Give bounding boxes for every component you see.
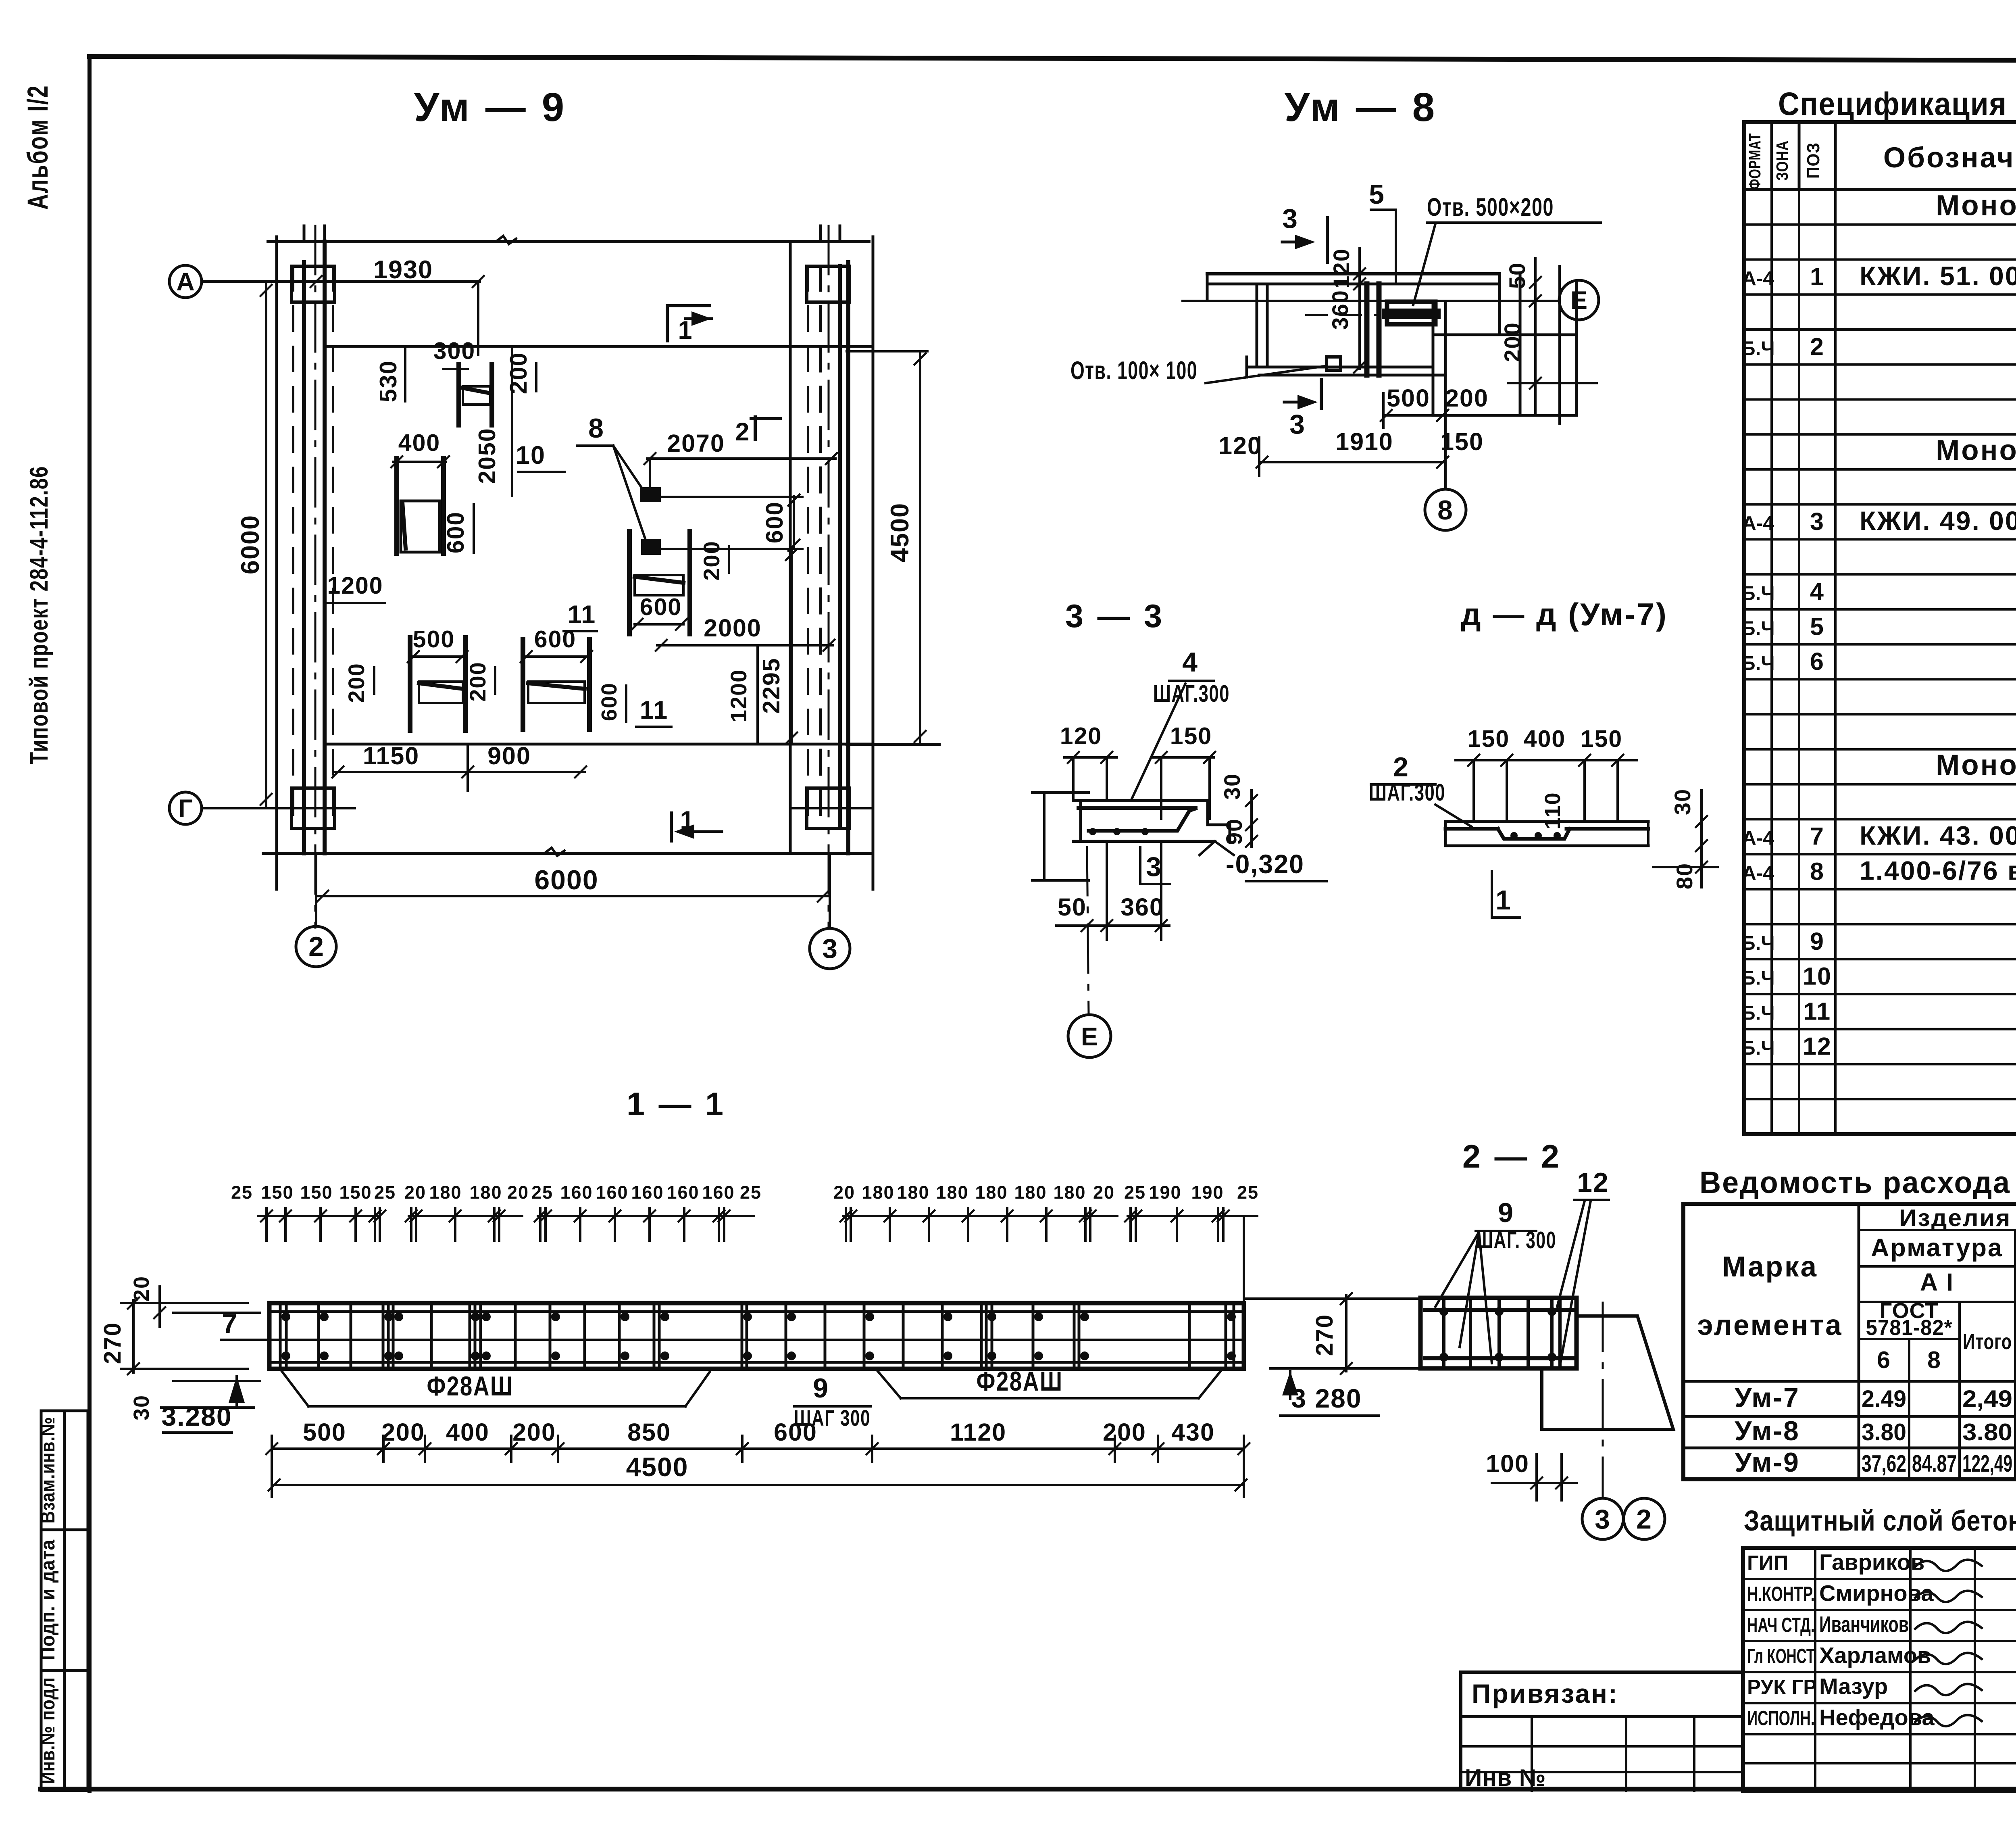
svg-text:3: 3 (1289, 409, 1306, 440)
svg-text:180: 180 (1053, 1182, 1086, 1203)
section mark 1 bottom (670, 813, 673, 841)
svg-text:5781-82*: 5781-82* (1866, 1316, 1953, 1340)
svg-text:3.80: 3.80 (1962, 1419, 2012, 1445)
svg-text:Ум — 9: Ум — 9 (414, 85, 566, 130)
opening D flank bars (521, 639, 525, 730)
svg-text:7: 7 (222, 1308, 238, 1339)
axis circle 3 (810, 928, 850, 969)
svg-text:200: 200 (505, 352, 532, 394)
svg-text:Гавриков: Гавриков (1819, 1550, 1924, 1575)
svg-text:150: 150 (1468, 726, 1510, 752)
svg-text:180: 180 (862, 1182, 894, 1203)
s11 rebar callout left F28AIII (282, 1371, 308, 1406)
svg-text:Монолитный участок Ум-9: Монолитный участок Ум-9 (1936, 749, 2016, 781)
svg-text:Мазур: Мазур (1819, 1674, 1888, 1699)
svg-text:3: 3 (822, 933, 837, 964)
svg-text:Е: Е (1570, 286, 1587, 315)
svg-text:Арматура: Арматура (1871, 1234, 2003, 1262)
um8 axis E circle (1559, 280, 1599, 320)
s33 axis E circle (1087, 847, 1089, 1015)
svg-text:КЖИ. 51. 00. 0: КЖИ. 51. 00. 0 (1860, 261, 2016, 291)
svg-text:Нефедова: Нефедова (1819, 1705, 1935, 1730)
svg-text:11: 11 (568, 601, 596, 629)
svg-text:3: 3 (1810, 508, 1824, 535)
svg-text:8: 8 (588, 413, 604, 444)
svg-text:Инв.№ подл: Инв.№ подл (37, 1677, 59, 1784)
svg-text:Б.Ч: Б.Ч (1741, 1037, 1774, 1059)
svg-text:Б.Ч: Б.Ч (1741, 932, 1774, 954)
dim 2050 (511, 346, 513, 496)
svg-text:3: 3 (1146, 851, 1162, 882)
left margin box: podp i data (41, 1530, 88, 1671)
svg-text:360: 360 (1327, 290, 1353, 330)
svg-text:150: 150 (1170, 723, 1212, 749)
dim 6000 left vertical (265, 282, 267, 808)
svg-text:Ф28АШ: Ф28АШ (427, 1371, 514, 1401)
svg-text:А-4: А-4 (1742, 268, 1774, 290)
spec table header row (1744, 188, 2016, 191)
svg-text:190: 190 (1149, 1182, 1181, 1203)
svg-text:9: 9 (813, 1373, 829, 1404)
svg-text:3 — 3: 3 — 3 (1065, 598, 1164, 634)
svg-text:400: 400 (398, 430, 440, 456)
svg-text:РУК ГР: РУК ГР (1747, 1676, 1817, 1699)
svg-text:4500: 4500 (626, 1452, 689, 1482)
svg-text:600: 600 (442, 511, 469, 553)
dim 2295 rot (790, 549, 793, 744)
svg-text:4: 4 (1182, 647, 1198, 678)
dim 600 right rot (793, 496, 795, 549)
svg-text:180: 180 (897, 1182, 929, 1203)
svg-text:ШАГ.300: ШАГ.300 (1369, 779, 1445, 806)
svg-text:А: А (176, 268, 195, 296)
svg-text:12: 12 (1803, 1032, 1832, 1060)
opening E rect (635, 575, 683, 595)
svg-text:Ум-7: Ум-7 (1735, 1383, 1800, 1413)
svg-text:530: 530 (375, 360, 402, 402)
svg-text:8: 8 (1927, 1347, 1941, 1373)
s33 left vertical dim (1043, 792, 1045, 880)
svg-text:элемента: элемента (1697, 1310, 1843, 1341)
svg-text:12: 12 (1577, 1167, 1609, 1198)
axis G circle (169, 792, 202, 824)
wall stubs above slab (303, 226, 306, 242)
svg-text:11: 11 (640, 696, 669, 724)
svg-text:600: 600 (761, 501, 788, 543)
svg-text:25: 25 (531, 1182, 553, 1203)
svg-text:Ведомость расхода стали на: Ведомость расхода стали на один элемент,… (1699, 1166, 2016, 1200)
section mark 2 top (751, 417, 780, 420)
vedomost outer (1683, 1204, 2016, 1479)
opening D rect (528, 682, 585, 703)
svg-text:10: 10 (516, 441, 546, 469)
opening E flank bars (627, 531, 632, 634)
svg-text:ГИП: ГИП (1747, 1552, 1788, 1575)
svg-text:8: 8 (1437, 495, 1454, 526)
svg-text:90: 90 (1221, 818, 1247, 845)
svg-text:20: 20 (129, 1276, 154, 1301)
svg-text:2070: 2070 (667, 430, 725, 457)
axis A circle (169, 265, 202, 298)
svg-text:Привязан:: Привязан: (1472, 1679, 1618, 1708)
svg-text:20: 20 (507, 1182, 529, 1203)
svg-text:ФОРМАТ: ФОРМАТ (1745, 133, 1764, 190)
svg-text:6000: 6000 (236, 515, 264, 574)
svg-text:Изделия арматурные: Изделия арматурные (1899, 1205, 2016, 1231)
svg-text:2.49: 2.49 (1862, 1386, 1906, 1412)
opening C rect (419, 682, 463, 703)
svg-text:3: 3 (1282, 203, 1298, 234)
sdd profile (1445, 820, 1648, 823)
svg-text:1: 1 (1810, 263, 1824, 290)
s33 right step (1206, 801, 1209, 825)
svg-text:Отв. 100× 100: Отв. 100× 100 (1070, 357, 1198, 385)
svg-text:9: 9 (1810, 928, 1824, 955)
um8 top slab lines (1207, 272, 1500, 275)
svg-text:200: 200 (699, 540, 724, 580)
privyazan block (1461, 1671, 1743, 1674)
svg-text:200: 200 (512, 1418, 556, 1446)
leader 8 to plates (613, 446, 645, 493)
svg-text:1200: 1200 (327, 572, 383, 599)
svg-text:160: 160 (560, 1182, 593, 1203)
svg-text:Типовой проект 284-4-112.86: Типовой проект 284-4-112.86 (25, 466, 53, 764)
svg-text:160: 160 (666, 1182, 699, 1203)
svg-text:400: 400 (1524, 726, 1566, 752)
svg-text:Н.КОНТР.: Н.КОНТР. (1747, 1583, 1815, 1606)
dim 1200 rot (756, 645, 759, 744)
signatures squiggles (1915, 1560, 1982, 1571)
s33 profile (1073, 799, 1208, 802)
svg-text:180: 180 (469, 1182, 502, 1203)
svg-text:150: 150 (1581, 726, 1622, 752)
svg-text:2295: 2295 (758, 657, 785, 713)
svg-text:Обозначение: Обозначение (1883, 142, 2016, 174)
svg-text:360: 360 (1120, 893, 1164, 921)
svg-text:Е: Е (1081, 1023, 1098, 1051)
svg-text:150: 150 (339, 1182, 372, 1203)
svg-text:25: 25 (231, 1182, 253, 1203)
title block staff grid (1743, 1578, 2016, 1580)
svg-text:2: 2 (735, 418, 750, 446)
svg-text:600: 600 (774, 1418, 817, 1446)
svg-text:180: 180 (429, 1182, 462, 1203)
svg-text:2 — 2: 2 — 2 (1462, 1139, 1562, 1175)
svg-text:600: 600 (534, 626, 576, 653)
embedded plate 2 (642, 540, 660, 554)
s22 dim 270 (1345, 1295, 1347, 1371)
plan slab inner top edge (327, 345, 871, 348)
svg-text:25: 25 (1124, 1182, 1146, 1203)
svg-text:200: 200 (1445, 384, 1489, 412)
svg-text:2: 2 (1393, 752, 1409, 782)
svg-text:600: 600 (640, 594, 682, 620)
svg-text:7: 7 (1810, 823, 1824, 850)
svg-text:600: 600 (597, 682, 621, 721)
axis G line (202, 807, 355, 809)
svg-text:Ф28АШ: Ф28АШ (977, 1366, 1063, 1397)
svg-text:ШАГ.300: ШАГ.300 (1153, 680, 1230, 707)
right wall axis 3 lines (872, 237, 875, 889)
svg-text:3: 3 (1595, 1504, 1611, 1535)
svg-text:1150: 1150 (363, 742, 419, 770)
s22 beam section (1420, 1298, 1577, 1368)
svg-text:25: 25 (740, 1182, 762, 1203)
s11 dashed gap (665, 1339, 738, 1341)
svg-text:Марка: Марка (1722, 1251, 1818, 1283)
um8 right block (1432, 301, 1435, 415)
svg-text:2000: 2000 (704, 614, 762, 642)
um8 axis E line (1183, 300, 1560, 302)
svg-text:Взам.инв.№: Взам.инв.№ (37, 1417, 59, 1524)
svg-text:6: 6 (1877, 1347, 1891, 1373)
svg-text:Подп. и дата: Подп. и дата (37, 1539, 59, 1660)
svg-text:ШАГ. 300: ШАГ. 300 (1476, 1227, 1556, 1253)
svg-text:30: 30 (1219, 773, 1245, 800)
plan slab bottom edge (263, 852, 872, 855)
svg-text:КЖИ. 43. 00. 0: КЖИ. 43. 00. 0 (1860, 821, 2016, 851)
svg-text:Ум-9: Ум-9 (1735, 1447, 1800, 1478)
left margin box: vzam inv (41, 1411, 88, 1530)
svg-text:5: 5 (1369, 179, 1385, 210)
svg-text:200: 200 (1103, 1418, 1146, 1446)
svg-text:А-4: А-4 (1742, 828, 1774, 849)
left margin box: inv no podl (41, 1671, 88, 1791)
section mark 1 top (667, 304, 710, 307)
svg-text:9: 9 (1498, 1197, 1514, 1228)
svg-text:ИСПОЛН.: ИСПОЛН. (1747, 1707, 1815, 1730)
s11 beam middle rebar line (269, 1339, 1244, 1341)
axis circle 2 (296, 926, 336, 967)
right column block top (807, 266, 850, 302)
s11 stirrups left group (279, 1307, 282, 1365)
s22 support step (1542, 1316, 1673, 1429)
svg-text:1200: 1200 (726, 669, 751, 723)
svg-text:3 280: 3 280 (1291, 1383, 1362, 1413)
svg-text:150: 150 (1440, 428, 1484, 455)
svg-text:5: 5 (1810, 613, 1824, 640)
svg-text:3.280: 3.280 (161, 1401, 232, 1431)
svg-text:100: 100 (1486, 1450, 1529, 1477)
embedded plate 1 (641, 488, 660, 501)
svg-text:430: 430 (1171, 1418, 1215, 1446)
svg-text:Г: Г (178, 795, 193, 823)
svg-text:122,49: 122,49 (1962, 1450, 2012, 1477)
left column block top (292, 266, 335, 302)
svg-text:20: 20 (404, 1182, 426, 1203)
svg-text:Инв №: Инв № (1465, 1764, 1546, 1791)
s11 right extension to section 2-2 dims (1244, 1297, 1420, 1300)
svg-text:500: 500 (303, 1418, 346, 1446)
svg-text:25: 25 (374, 1182, 396, 1203)
svg-text:30: 30 (129, 1395, 154, 1420)
opening C flank bars (408, 638, 412, 730)
left column block bottom (292, 788, 335, 828)
svg-text:1910: 1910 (1335, 428, 1393, 455)
svg-text:500: 500 (413, 626, 455, 653)
svg-text:1: 1 (1495, 885, 1512, 916)
svg-text:200: 200 (344, 663, 369, 703)
svg-text:Монолитный участок Ум-7: Монолитный участок Ум-7 (1936, 190, 2016, 221)
svg-text:200: 200 (1500, 322, 1525, 362)
svg-text:160: 160 (702, 1182, 735, 1203)
svg-text:1.400-6/76 выпуск 1: 1.400-6/76 выпуск 1 (1860, 855, 2016, 885)
svg-text:900: 900 (487, 742, 531, 770)
svg-text:850: 850 (627, 1418, 671, 1446)
svg-text:50: 50 (1504, 262, 1530, 289)
s22 elevation 3 280 (1282, 1371, 1298, 1395)
axis A line (202, 280, 480, 283)
svg-text:120: 120 (1060, 723, 1102, 749)
svg-text:2050: 2050 (474, 428, 500, 484)
svg-text:Гл КОНСТ: Гл КОНСТ (1747, 1645, 1815, 1668)
um8 bottom lines (1247, 366, 1433, 369)
svg-text:ПОЗ: ПОЗ (1804, 142, 1823, 179)
svg-text:20: 20 (1093, 1182, 1115, 1203)
svg-text:2: 2 (1636, 1504, 1652, 1535)
svg-text:8: 8 (1810, 857, 1824, 885)
axis 2 centerline (314, 226, 317, 928)
svg-text:2: 2 (1810, 333, 1824, 360)
plan slab inner bottom edge (327, 743, 871, 746)
s11 rebar callout right F28AIII (876, 1369, 901, 1398)
dim 6000 bottom (316, 895, 830, 897)
dim 530 (404, 346, 406, 401)
svg-text:200: 200 (381, 1418, 425, 1446)
svg-text:270: 270 (99, 1322, 126, 1364)
opening B rect (401, 501, 439, 552)
axis 3 centerline (828, 226, 830, 928)
svg-text:Защитный слой бетона до ни: Защитный слой бетона до низа рабочей арм… (1744, 1505, 2016, 1537)
svg-text:190: 190 (1191, 1182, 1224, 1203)
svg-text:2: 2 (308, 931, 324, 962)
um8 circle 8 (1444, 301, 1447, 489)
um8 left leg (1256, 284, 1258, 367)
svg-text:270: 270 (1311, 1314, 1338, 1356)
s11 left end dims 20 270 30 (121, 1302, 248, 1304)
svg-text:10: 10 (1803, 963, 1832, 990)
svg-text:160: 160 (596, 1182, 628, 1203)
svg-text:Б.Ч: Б.Ч (1741, 617, 1774, 639)
svg-text:180: 180 (1014, 1182, 1047, 1203)
s33 rebar channel (1089, 809, 1195, 831)
spec table outer border (1744, 122, 2016, 1134)
svg-text:37,62: 37,62 (1862, 1450, 1906, 1477)
um8 section mark 3 bottom (1320, 380, 1323, 409)
svg-text:Монолитный участок Ум-8: Монолитный участок Ум-8 (1936, 435, 2016, 467)
svg-text:4: 4 (1810, 578, 1824, 605)
s11 elevation 3.280 left (161, 1406, 254, 1409)
right column block bottom (807, 788, 850, 828)
svg-text:Б.Ч: Б.Ч (1741, 338, 1774, 359)
svg-text:1120: 1120 (950, 1418, 1006, 1446)
svg-text:1: 1 (678, 316, 693, 344)
svg-text:КЖИ. 49. 00. 0: КЖИ. 49. 00. 0 (1860, 506, 2016, 536)
um8 small hole 100x100 (1327, 357, 1341, 370)
svg-text:180: 180 (936, 1182, 968, 1203)
page frame (90, 56, 2016, 61)
svg-text:1 — 1: 1 — 1 (627, 1086, 726, 1122)
svg-text:А I: А I (1920, 1268, 1954, 1296)
um8 opening dark rect (1387, 302, 1435, 324)
svg-text:Ум-8: Ум-8 (1735, 1416, 1800, 1446)
svg-text:Б.Ч: Б.Ч (1741, 583, 1774, 605)
opening A flank bars (456, 364, 461, 425)
svg-text:4500: 4500 (886, 503, 914, 562)
svg-text:Б.Ч: Б.Ч (1741, 653, 1774, 674)
title block outer (1743, 1548, 2016, 1791)
svg-text:А-4: А-4 (1742, 513, 1774, 534)
svg-text:ЗОНА: ЗОНА (1773, 140, 1791, 181)
svg-text:2,49: 2,49 (1962, 1386, 2012, 1412)
svg-text:Ум — 8: Ум — 8 (1285, 85, 1437, 130)
svg-text:150: 150 (300, 1182, 333, 1203)
svg-text:Отв. 500×200: Отв. 500×200 (1427, 193, 1554, 221)
svg-text:А-4: А-4 (1742, 862, 1774, 884)
svg-text:200: 200 (465, 661, 490, 701)
svg-text:160: 160 (631, 1182, 664, 1203)
svg-text:Итого: Итого (1963, 1330, 2012, 1354)
svg-text:Альбом I/2: Альбом I/2 (22, 85, 54, 210)
svg-text:400: 400 (446, 1418, 489, 1446)
s11 stirrups right group (741, 1307, 744, 1365)
svg-text:Б.Ч: Б.Ч (1741, 1002, 1774, 1024)
svg-text:120: 120 (1329, 248, 1354, 288)
svg-text:1930: 1930 (373, 256, 433, 284)
svg-text:Иванчиков: Иванчиков (1819, 1612, 1909, 1637)
s11 stirrups left group dots (281, 1312, 290, 1321)
svg-text:30: 30 (1670, 788, 1695, 815)
vedomost header lines (1858, 1204, 1860, 1479)
svg-text:20: 20 (833, 1182, 855, 1203)
svg-text:300: 300 (433, 338, 475, 364)
s11 beam outline (269, 1303, 1244, 1369)
svg-text:Б.Ч: Б.Ч (1741, 968, 1774, 989)
dim 4500 right vertical (919, 351, 921, 745)
svg-text:3.80: 3.80 (1862, 1419, 1906, 1445)
svg-text:-0,320: -0,320 (1226, 849, 1304, 879)
svg-text:110: 110 (1541, 792, 1565, 829)
um8 mid verticals (1364, 284, 1370, 375)
svg-text:150: 150 (261, 1182, 294, 1203)
svg-text:Спецификация монолитных уча: Спецификация монолитных участков Ум-7÷Ум… (1778, 86, 2016, 122)
left wall axis 2 lines (275, 237, 278, 889)
opening A rect (463, 386, 490, 405)
s22 axis circles 3 2 (1602, 1303, 1604, 1498)
svg-text:180: 180 (975, 1182, 1008, 1203)
opening B flank bars (394, 458, 399, 553)
svg-text:11: 11 (1804, 997, 1831, 1025)
svg-text:25: 25 (1237, 1182, 1259, 1203)
plan slab top edge (268, 240, 869, 243)
svg-text:500: 500 (1387, 384, 1430, 412)
svg-text:50: 50 (1058, 893, 1087, 921)
svg-text:6: 6 (1810, 648, 1824, 675)
svg-text:Смирнова: Смирнова (1819, 1581, 1934, 1606)
svg-text:84.87: 84.87 (1912, 1450, 1957, 1477)
svg-text:Харламов: Харламов (1819, 1643, 1931, 1668)
svg-text:НАЧ СТД.: НАЧ СТД. (1747, 1614, 1815, 1637)
svg-text:д — д (Ум-7): д — д (Ум-7) (1461, 596, 1668, 632)
svg-text:6000: 6000 (534, 865, 598, 895)
svg-text:120: 120 (1218, 432, 1262, 459)
